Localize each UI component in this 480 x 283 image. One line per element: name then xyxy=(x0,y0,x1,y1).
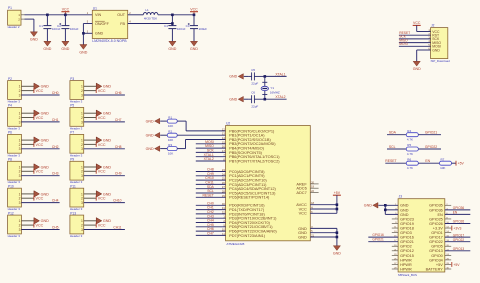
wire U1 GND pin to ground xyxy=(83,32,92,34)
svg-text:GPIO17: GPIO17 xyxy=(453,233,465,237)
svg-text:2: 2 xyxy=(19,116,21,120)
ground for P13 xyxy=(96,218,111,224)
net label EN xyxy=(425,159,430,163)
MCU pin 8 PB7 xyxy=(223,158,280,164)
net label MOSI xyxy=(205,140,214,144)
wire ON/OFF to ground xyxy=(83,24,92,45)
svg-text:ADC7: ADC7 xyxy=(296,190,306,195)
wire net CH0 xyxy=(196,204,226,206)
svg-text:P8: P8 xyxy=(8,158,12,162)
wire XTAL1 net xyxy=(265,75,287,77)
svg-text:CH11: CH11 xyxy=(113,226,121,230)
wire P12 pin1 to GND xyxy=(21,220,34,222)
svg-text:GPIO16: GPIO16 xyxy=(372,233,384,237)
svg-text:GPIO5: GPIO5 xyxy=(431,245,443,249)
svg-text:XTAL1: XTAL1 xyxy=(275,72,285,76)
wire P4 pin1 to GND xyxy=(21,112,34,114)
header P5 xyxy=(70,104,84,131)
wire SCK to ISP xyxy=(399,38,431,40)
svg-text:SCL: SCL xyxy=(389,145,396,149)
wire ADC7 stub xyxy=(310,192,318,194)
wire P2 pin3 net CH0 xyxy=(21,94,59,96)
wire R6 to EN xyxy=(418,162,439,164)
MCU pin 3 GND xyxy=(298,225,313,231)
voltage regulator U1 LM2940SX-5.0 xyxy=(87,6,131,43)
power VCC for P4 xyxy=(34,115,44,120)
svg-text:VCC: VCC xyxy=(98,170,106,174)
capacitor C4 100nF xyxy=(164,24,186,41)
MCU pin 15 PB3 xyxy=(222,140,276,146)
svg-text:GPIO22: GPIO22 xyxy=(429,240,443,244)
svg-text:4K30 TDK: 4K30 TDK xyxy=(144,17,157,21)
wire ISP GND xyxy=(417,50,431,61)
svg-text:GPIO16: GPIO16 xyxy=(400,236,414,240)
wire net CH10 xyxy=(196,179,226,181)
svg-text:R6: R6 xyxy=(407,157,411,161)
svg-text:P3: P3 xyxy=(70,77,74,81)
svg-text:+5V: +5V xyxy=(334,191,341,195)
svg-text:GPIO17: GPIO17 xyxy=(429,236,443,240)
svg-text:2: 2 xyxy=(81,170,83,174)
svg-text:GPIO26: GPIO26 xyxy=(429,222,443,226)
ground for P5 xyxy=(96,110,111,116)
net label XTAL1 xyxy=(275,72,285,76)
svg-text:3: 3 xyxy=(19,120,21,124)
power VCC for P12 xyxy=(34,223,44,228)
net label CH9 xyxy=(115,172,122,176)
svg-text:GND: GND xyxy=(79,50,87,54)
svg-text:GND: GND xyxy=(333,252,341,256)
wire C5 left xyxy=(244,75,249,77)
MCU pin 25 PC2 xyxy=(222,177,268,183)
svg-text:GPIO15: GPIO15 xyxy=(400,254,414,258)
wire R7 to +5V xyxy=(452,162,457,164)
resistor R6 4.7K xyxy=(406,157,418,170)
svg-text:Header 3: Header 3 xyxy=(8,234,21,238)
connector P1 power input header xyxy=(8,6,25,29)
svg-text:GPIO13: GPIO13 xyxy=(453,247,465,251)
svg-text:P1: P1 xyxy=(8,6,12,10)
svg-text:R1: R1 xyxy=(168,115,172,119)
MCU pin 17 PB5 xyxy=(222,149,263,155)
svg-text:RESET: RESET xyxy=(385,159,396,163)
svg-text:22pF: 22pF xyxy=(251,82,258,86)
header P4 xyxy=(8,104,22,131)
wire P2 pin1 to GND xyxy=(21,85,34,87)
svg-text:GPIO3: GPIO3 xyxy=(400,231,412,235)
junction M5 gnd 2 xyxy=(384,209,387,212)
wire AVCC to +5V xyxy=(310,205,337,214)
wire GND pin5 xyxy=(310,232,337,234)
resistor R4 4.7K xyxy=(406,129,418,142)
MCU pin 28 PC5 xyxy=(222,190,276,196)
wire ADC6 stub xyxy=(310,187,318,189)
svg-text:16MHZ: 16MHZ xyxy=(270,91,280,95)
net label CH9 xyxy=(207,172,214,176)
svg-text:GPIO12: GPIO12 xyxy=(400,249,414,253)
svg-text:GPIO36: GPIO36 xyxy=(429,208,443,212)
wire net SDA xyxy=(196,188,226,190)
svg-text:2: 2 xyxy=(81,116,83,120)
svg-text:GPIO21: GPIO21 xyxy=(372,238,384,242)
power +5V for AVCC xyxy=(333,191,341,205)
net label CH8 xyxy=(207,168,214,172)
svg-text:GPIO18: GPIO18 xyxy=(400,226,414,230)
svg-text:3: 3 xyxy=(19,174,21,178)
net label SCK xyxy=(207,149,215,153)
wire net CH2 xyxy=(196,213,226,215)
power VCC at input node xyxy=(61,8,69,15)
wire GPIO16 net xyxy=(368,236,398,238)
svg-text:3: 3 xyxy=(81,201,83,205)
svg-text:GND: GND xyxy=(400,213,409,217)
svg-text:PC6(RESET/PCINT14): PC6(RESET/PCINT14) xyxy=(229,195,270,200)
MCU pin 4 VCC xyxy=(299,206,314,212)
power VCC for P6 xyxy=(34,142,44,147)
wire GPIO26 net M5 xyxy=(445,223,471,225)
net label GPIO13 M5 xyxy=(453,247,465,251)
ground for P12 xyxy=(34,218,49,224)
wire AREF stub xyxy=(310,183,318,185)
ground for U1 xyxy=(79,45,87,55)
ground for MCU xyxy=(333,246,341,256)
svg-text:VCC: VCC xyxy=(299,211,307,216)
net label GPIO17 M5 xyxy=(453,233,465,237)
svg-text:VCC: VCC xyxy=(190,8,198,12)
net label CH6 xyxy=(115,91,122,95)
wire net SCK xyxy=(196,151,226,153)
ground for C3 xyxy=(190,41,198,51)
net label SDA xyxy=(389,131,397,135)
svg-text:HPWR: HPWR xyxy=(400,267,412,271)
MCU pin 29 PC6 xyxy=(222,194,270,200)
svg-text:P7: P7 xyxy=(70,131,74,135)
wire ground to R1 xyxy=(160,120,167,122)
ground for R1 xyxy=(146,118,160,124)
wire P6 pin1 to GND xyxy=(21,139,34,141)
net label CH7 xyxy=(115,118,122,122)
svg-text:P11: P11 xyxy=(70,184,76,188)
ground for P4 xyxy=(34,110,49,116)
MCU pin 18 AVCC xyxy=(296,201,314,207)
svg-text:+5V: +5V xyxy=(458,162,465,166)
net label CH2 xyxy=(52,145,59,149)
svg-text:3: 3 xyxy=(81,147,83,151)
net label XTAL2 xyxy=(275,95,285,99)
MCU pin 23 PC0 xyxy=(222,168,265,174)
wire P8 pin1 to GND xyxy=(21,166,34,168)
junction XTAL1 xyxy=(264,75,267,78)
junction AVCC node xyxy=(336,203,339,206)
junction VCC node xyxy=(336,208,339,211)
svg-text:R2: R2 xyxy=(168,129,172,133)
connector J3 M5Stack_BUS xyxy=(392,195,451,277)
svg-text:+5V: +5V xyxy=(453,263,460,267)
power VCC for ISP xyxy=(413,21,431,31)
wire P4 pin2 to VCC xyxy=(21,117,34,119)
svg-text:M5Stack_BUS: M5Stack_BUS xyxy=(398,273,417,277)
junction FB node top xyxy=(171,14,174,17)
wire P7 pin3 net CH8 xyxy=(84,148,125,150)
svg-text:3: 3 xyxy=(19,201,21,205)
svg-text:GND: GND xyxy=(146,134,154,138)
svg-text:VCC: VCC xyxy=(62,8,70,12)
svg-text:L1: L1 xyxy=(145,8,149,12)
svg-text:2: 2 xyxy=(19,89,21,93)
ground for C5 xyxy=(229,74,243,80)
svg-text:R7: R7 xyxy=(441,157,445,161)
ground for C6 xyxy=(229,96,243,102)
capacitor C3 100uF polarized xyxy=(186,15,208,42)
svg-text:VCC: VCC xyxy=(98,197,106,201)
svg-text:4.7K: 4.7K xyxy=(407,138,413,142)
svg-text:GPIO13: GPIO13 xyxy=(429,249,443,253)
net label RESET ISP xyxy=(399,31,410,35)
net label CH0 xyxy=(52,91,59,95)
svg-text:ISP_Download: ISP_Download xyxy=(431,59,451,63)
wire P13 pin1 to GND xyxy=(84,220,97,222)
net label CH7 xyxy=(207,232,214,236)
inductor L1 4K30 TDK xyxy=(143,8,158,21)
junction FB node xyxy=(171,22,174,25)
wire net CH1 xyxy=(196,209,226,211)
svg-text:2: 2 xyxy=(81,143,83,147)
junction at C1 xyxy=(46,14,49,17)
svg-text:GPIO2: GPIO2 xyxy=(400,245,412,249)
ground for P1 pin2 xyxy=(30,32,38,42)
net label GPIO21 M5 xyxy=(372,238,384,242)
svg-text:2: 2 xyxy=(19,197,21,201)
net label CH3 xyxy=(52,172,59,176)
svg-text:VCC: VCC xyxy=(98,224,106,228)
wire SCL net xyxy=(387,148,406,150)
svg-text:GPIO21: GPIO21 xyxy=(400,240,414,244)
svg-text:CH6: CH6 xyxy=(115,91,122,95)
MCU pin 31 PD1 xyxy=(222,206,265,212)
wire net CH8 xyxy=(196,171,226,173)
svg-text:VCC: VCC xyxy=(36,224,44,228)
ground for C1 xyxy=(43,41,51,51)
svg-text:GND: GND xyxy=(298,234,307,239)
junction GND node 1 xyxy=(336,231,339,234)
svg-text:VCC: VCC xyxy=(98,89,106,93)
MCU pin 11 PD7 xyxy=(222,232,266,238)
wire M5 GND pin1 xyxy=(378,204,398,206)
wire GND pin3 xyxy=(310,228,337,245)
net label XTAL1 xyxy=(204,153,214,157)
svg-text:GPIO21: GPIO21 xyxy=(425,131,437,135)
svg-text:SDA: SDA xyxy=(389,131,397,135)
power VCC for P2 xyxy=(34,88,44,93)
wire net MOSI xyxy=(196,143,226,145)
wire P11 pin1 to GND xyxy=(84,193,97,195)
wire P9 pin2 to VCC xyxy=(84,170,97,172)
MCU pin 6 VCC xyxy=(299,210,314,216)
net label GPIO26 M5 xyxy=(453,220,465,224)
wire R4 to GPIO21 xyxy=(418,134,441,136)
net label SCL xyxy=(389,145,396,149)
svg-text:PB7(PCINT7/XTAL2/TOSC2): PB7(PCINT7/XTAL2/TOSC2) xyxy=(229,158,280,163)
svg-text:R4: R4 xyxy=(407,129,411,133)
wire GPIO13 net M5 xyxy=(445,250,471,252)
MCU pin 7 PB6 xyxy=(223,153,280,159)
svg-text:P4: P4 xyxy=(8,104,12,108)
net label CH11 xyxy=(113,226,121,230)
svg-text:3: 3 xyxy=(81,120,83,124)
wire P12 pin2 to VCC xyxy=(21,224,34,226)
header P7 xyxy=(70,131,84,158)
wire VCC pin4 xyxy=(310,208,337,210)
svg-text:P5: P5 xyxy=(70,104,74,108)
wire MOSI to ISP xyxy=(399,45,431,47)
svg-text:100uF: 100uF xyxy=(199,27,208,31)
net label CH10 xyxy=(113,199,122,203)
wire P8 pin2 to VCC xyxy=(21,170,34,172)
svg-text:GPIO22: GPIO22 xyxy=(453,238,465,242)
svg-text:LM2940SX-5.0 NOPB: LM2940SX-5.0 NOPB xyxy=(92,39,127,43)
svg-text:GND: GND xyxy=(146,147,154,151)
net label MOSI ISP xyxy=(399,42,408,46)
wire P8 pin3 net CH3 xyxy=(21,175,59,177)
MCU pin 5 GND xyxy=(298,229,313,235)
svg-text:+3.3V: +3.3V xyxy=(433,226,443,230)
svg-text:3: 3 xyxy=(81,228,83,232)
resistor R1 10K xyxy=(167,115,177,128)
svg-text:EN: EN xyxy=(453,211,458,215)
capacitor C6 22pF xyxy=(248,90,264,108)
ground for ISP xyxy=(413,61,421,71)
svg-text:ATMEGA328: ATMEGA328 xyxy=(226,242,244,246)
net label GPIO36 M5 xyxy=(453,206,465,210)
wire ground to R3 xyxy=(160,148,167,150)
svg-text:GPIO0: GPIO0 xyxy=(431,254,443,258)
power VCC for P13 xyxy=(96,223,106,228)
svg-text:GND: GND xyxy=(432,48,440,52)
MCU pin 30 PD0 xyxy=(222,202,265,208)
ground for P2 xyxy=(34,83,49,89)
net label CH10 xyxy=(205,176,214,180)
net label GPIO16 xyxy=(372,233,384,237)
svg-text:XTAL2: XTAL2 xyxy=(275,95,285,99)
power VCC for P10 xyxy=(34,196,44,201)
capacitor C1 100nF xyxy=(39,15,61,42)
svg-text:C2: C2 xyxy=(57,24,61,28)
net label EN M5 xyxy=(453,211,458,215)
ground for C4 xyxy=(168,41,176,51)
connector J2 ISP_Download xyxy=(428,24,450,63)
wire P4 pin3 net CH1 xyxy=(21,121,59,123)
power +5V for M5 xyxy=(452,262,460,267)
svg-text:CH4: CH4 xyxy=(52,199,59,203)
svg-text:GND: GND xyxy=(95,32,104,36)
wire P3 pin1 to GND xyxy=(84,85,97,87)
svg-text:10K: 10K xyxy=(168,138,173,142)
header P6 xyxy=(8,131,22,158)
ground for M5 bus xyxy=(364,203,378,209)
svg-text:2: 2 xyxy=(81,197,83,201)
wire M5 GND pin2 xyxy=(385,205,398,214)
svg-text:CH5: CH5 xyxy=(52,226,59,230)
wire net CH3 xyxy=(196,217,226,219)
svg-text:GND: GND xyxy=(61,47,69,51)
svg-text:GPIO26: GPIO26 xyxy=(453,220,465,224)
wire L1 to VCC node xyxy=(158,14,194,16)
power +3V3 for M5 xyxy=(452,226,462,231)
ground for P10 xyxy=(34,191,49,197)
net label CH8 xyxy=(115,145,122,149)
svg-text:GND: GND xyxy=(168,47,176,51)
header P10 xyxy=(8,184,22,211)
MCU pin 2 PD4 xyxy=(223,219,270,225)
svg-text:C6: C6 xyxy=(251,90,255,94)
svg-text:3: 3 xyxy=(19,93,21,97)
net label CH4 xyxy=(52,199,59,203)
svg-text:CH10: CH10 xyxy=(113,199,122,203)
MCU pin 1 PD3 xyxy=(223,215,277,221)
wire P13 pin3 net CH11 xyxy=(84,229,125,231)
MCU pin 12 PB0 xyxy=(222,127,275,133)
svg-text:VCC: VCC xyxy=(36,143,44,147)
power VCC at regulator output xyxy=(190,8,198,15)
ground for P7 xyxy=(96,137,111,143)
wire P3 pin3 net CH6 xyxy=(84,94,125,96)
svg-text:10K: 10K xyxy=(168,151,173,155)
wire net CH4 xyxy=(196,222,226,224)
svg-text:VCC: VCC xyxy=(36,116,44,120)
wire R2 to MCU xyxy=(177,134,225,136)
net label RESET xyxy=(202,193,213,197)
wire GPIO36 net M5 xyxy=(445,209,471,211)
net label CH4 xyxy=(207,219,214,223)
wire P7 pin2 to VCC xyxy=(84,143,97,145)
junction XTAL2 xyxy=(264,98,267,101)
svg-text:EN: EN xyxy=(425,159,430,163)
svg-text:3: 3 xyxy=(19,228,21,232)
wire P9 pin1 to GND xyxy=(84,166,97,168)
wire P1 pin2 to ground xyxy=(25,19,34,32)
svg-text:HPWR: HPWR xyxy=(400,263,412,267)
svg-text:GND: GND xyxy=(400,208,409,212)
wire GPIO17 net M5 xyxy=(445,236,471,238)
svg-text:C4: C4 xyxy=(164,24,168,28)
net label SCL xyxy=(207,189,214,193)
net label RESET xyxy=(385,159,396,163)
header P9 xyxy=(70,158,84,185)
MCU pin 16 PB4 xyxy=(222,145,265,151)
wire P5 pin1 to GND xyxy=(84,112,97,114)
svg-text:CH7: CH7 xyxy=(115,118,122,122)
svg-text:GPIO1: GPIO1 xyxy=(431,231,443,235)
wire P10 pin2 to VCC xyxy=(21,197,34,199)
svg-text:3: 3 xyxy=(19,147,21,151)
header P13 xyxy=(70,211,84,238)
junction U1 ground node xyxy=(82,32,85,35)
svg-text:GND: GND xyxy=(43,47,51,51)
net label SDA xyxy=(207,185,215,189)
wire P6 pin3 net CH2 xyxy=(21,148,59,150)
svg-text:VCC: VCC xyxy=(36,170,44,174)
wire R1 to MCU xyxy=(177,121,225,131)
svg-text:J2: J2 xyxy=(431,24,435,28)
svg-text:10K: 10K xyxy=(440,166,445,170)
wire VCC pin6 xyxy=(310,212,337,214)
wire C6 left xyxy=(244,98,249,100)
svg-text:2: 2 xyxy=(19,170,21,174)
wire P13 pin2 to VCC xyxy=(84,224,97,226)
svg-text:GND: GND xyxy=(30,38,38,42)
svg-text:VCC: VCC xyxy=(36,89,44,93)
svg-text:J3: J3 xyxy=(399,195,403,199)
